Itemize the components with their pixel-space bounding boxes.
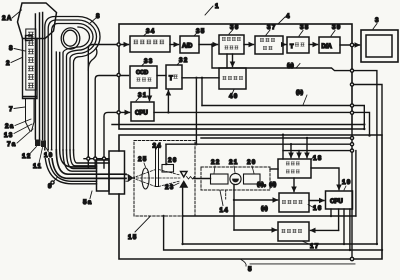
box4 edge extension [351, 129, 353, 259]
svg-text:40: 40 [229, 93, 239, 100]
wire to pre-process [88, 45, 128, 169]
svg-text:21: 21 [229, 159, 239, 166]
box 32 TG [166, 65, 182, 89]
wire 16 to CPU19 [309, 200, 324, 202]
label 2a [5, 119, 31, 130]
label 13 [4, 124, 32, 139]
wire 33-32 [157, 75, 166, 77]
dashed lamp housing 15 [134, 141, 195, 217]
CPU19 riser A [330, 209, 332, 216]
node TG branch [201, 77, 203, 79]
wire right into 17 [311, 229, 339, 231]
light rays [133, 170, 181, 187]
label 38 [299, 24, 310, 36]
monitor 3 outer [361, 30, 398, 62]
wire y150.6 to y216 riser [355, 151, 357, 216]
svg-text:5a: 5a [83, 199, 93, 206]
box 36 video signal processor [219, 35, 244, 54]
box 19 CPU [326, 191, 353, 209]
wire 38-39 [309, 44, 318, 46]
wire 18 down to 16 [293, 178, 295, 192]
label 19 [342, 179, 352, 190]
label 2A [2, 10, 22, 22]
scope body sides [23, 39, 38, 99]
box 22 [211, 174, 229, 184]
wire 14 to 18 [270, 168, 278, 170]
enclosure 5 [119, 135, 382, 259]
label 21 [229, 159, 239, 173]
label 16 [308, 205, 323, 213]
bus y250 [164, 216, 382, 250]
box 17 photometric circuit [278, 222, 309, 241]
label 24 [153, 143, 163, 150]
svg-text:2: 2 [6, 60, 11, 67]
label 5a [83, 191, 93, 206]
label 15 [128, 217, 150, 242]
wire left into 17 [234, 229, 277, 231]
svg-text:D/A: D/A [322, 44, 333, 50]
label 11 [32, 148, 44, 171]
svg-text:2A: 2A [2, 15, 13, 22]
descending cable bundle with bend [35, 13, 126, 184]
wire 26 riser [165, 144, 167, 164]
wire (b) bus [202, 106, 364, 130]
label 34 [144, 28, 156, 36]
wire CPU31 right to TG riser [154, 111, 168, 113]
CPU19 riser B [338, 209, 340, 230]
svg-text:23: 23 [165, 184, 175, 191]
svg-text:7: 7 [9, 106, 14, 113]
wire 32-40 [182, 77, 219, 79]
bus y144.2 [166, 143, 352, 145]
node on (a) branch [211, 43, 213, 45]
label 14 [220, 191, 230, 215]
svg-text:T: T [290, 44, 294, 50]
processor enclosure 4 [119, 24, 352, 129]
svg-text:22: 22 [211, 159, 221, 166]
svg-text:15: 15 [128, 234, 138, 241]
label 3 [373, 17, 380, 29]
svg-text:20: 20 [247, 159, 257, 166]
dashes below 22 [225, 190, 227, 199]
wire to CPU31 [104, 112, 130, 168]
box 18 diaphragm controller [278, 159, 311, 178]
bus y124.5 [112, 124, 364, 126]
bus y138 [201, 137, 352, 139]
box 35 A/D [180, 36, 199, 53]
wire motor to 16 with (a) [234, 185, 278, 230]
label 23 [165, 183, 179, 191]
bus y244 [183, 243, 377, 245]
wire into connector [84, 158, 109, 160]
junction [167, 111, 169, 113]
svg-text:25: 25 [138, 156, 148, 163]
riser TG wire to bus [195, 78, 197, 144]
svg-text:5: 5 [248, 266, 253, 273]
svg-text:31: 31 [138, 92, 148, 99]
svg-text:26: 26 [168, 157, 178, 164]
wire 36 down to 40 [226, 54, 228, 68]
svg-text:8: 8 [9, 45, 14, 52]
svg-text:14: 14 [220, 207, 230, 214]
wire 33 down to CPU31 [149, 88, 151, 101]
box 39 D/A [319, 37, 340, 53]
box 34 pre-process circuit [130, 36, 170, 52]
svg-text:8: 8 [96, 13, 101, 20]
svg-text:24: 24 [153, 143, 163, 150]
wire to CCD driver [95, 76, 128, 169]
svg-text:38: 38 [300, 24, 310, 31]
label 18 [311, 155, 323, 162]
svg-text:3: 3 [375, 17, 380, 24]
wire 34-35 [170, 44, 179, 46]
label 36 [229, 24, 240, 34]
svg-text:16: 16 [313, 205, 323, 212]
label 8 left [9, 45, 25, 52]
svg-text:39: 39 [332, 24, 342, 31]
box 31 CPU [131, 102, 154, 121]
second bottom line [250, 263, 355, 265]
svg-text:2a: 2a [5, 123, 15, 130]
wire 18 right to CPU19 top [311, 168, 339, 190]
insertion tube 7a [26, 99, 35, 132]
svg-text:13: 13 [4, 132, 14, 139]
node (b) corner [363, 128, 365, 130]
label 4 [278, 13, 291, 24]
wire (a) video branch [212, 45, 377, 245]
label 17 [303, 242, 320, 251]
svg-text:A/D: A/D [182, 44, 193, 50]
label 1 [205, 3, 220, 15]
label 7 [9, 106, 25, 113]
box 33 CCD driver [130, 66, 157, 88]
chopper motor 21 [230, 173, 241, 184]
svg-text:36: 36 [230, 24, 240, 31]
aperture motor 26 [162, 165, 174, 173]
wire 37-38 [283, 44, 286, 46]
label 37 [266, 24, 277, 35]
box 40 light-control circuit [219, 68, 246, 89]
label 33 [142, 58, 154, 66]
wire TG branch riser [201, 78, 203, 106]
label 25 [138, 156, 148, 167]
svg-text:37: 37 [267, 24, 277, 31]
label 7a [7, 129, 33, 148]
svg-text:34: 34 [146, 28, 156, 35]
svg-text:(c)，(d): (c)，(d) [257, 182, 276, 188]
label 32 [177, 57, 189, 65]
label 40 [229, 90, 239, 101]
box 38 gamma correction [287, 37, 309, 53]
label 31 [136, 92, 148, 101]
cable loop 8 (P-shaped coiled cord) [45, 17, 100, 151]
svg-text:11: 11 [33, 163, 42, 170]
label 9 [48, 178, 57, 191]
svg-text:1: 1 [215, 3, 220, 10]
aperture plate 24 [156, 148, 159, 187]
svg-text:(a): (a) [287, 63, 294, 69]
handle inner square [26, 36, 33, 41]
label 10 [43, 147, 55, 159]
cpu31 long wire y112.4 [168, 112, 369, 135]
svg-text:10: 10 [44, 152, 54, 159]
svg-text:(b): (b) [296, 90, 303, 96]
lamp riser [182, 187, 184, 244]
feeders into box18 [282, 135, 284, 159]
label 5 [241, 260, 253, 274]
CPU19 riser C [343, 209, 345, 244]
monitor 3 screen [366, 35, 392, 57]
wire TG down [167, 91, 169, 113]
dashed chopper unit 14 [201, 167, 270, 190]
svg-text:CPU: CPU [135, 111, 148, 117]
wire 39-monitor [340, 44, 360, 46]
lamp 23 [181, 172, 188, 178]
box 20 [244, 174, 261, 184]
box 16 lamp controller [279, 193, 309, 212]
bus y150.6 [283, 150, 352, 152]
label 39 [331, 24, 342, 36]
name strip on body [26, 29, 36, 90]
svg-text:(a): (a) [261, 206, 268, 212]
wire lamp to 22 [194, 178, 211, 180]
connector block 5a [97, 160, 110, 191]
CPU19 riser D [349, 209, 351, 250]
svg-text:7a: 7a [7, 141, 17, 148]
light guide tip [126, 175, 133, 181]
svg-text:12: 12 [22, 153, 32, 160]
wire 36-37 [244, 44, 254, 46]
node circles on risers [94, 157, 97, 160]
wire 35-36 [199, 44, 218, 46]
handle / operation part 2A [18, 3, 57, 39]
feeder into 18 [298, 151, 300, 158]
svg-text:19: 19 [342, 179, 352, 186]
node on box4 edge [350, 43, 353, 46]
wire 36 down to 40 arrow [232, 54, 234, 67]
label 8 at loop [89, 13, 101, 24]
label 26 [165, 157, 178, 165]
label 22 [211, 159, 221, 174]
label 20 [247, 159, 257, 174]
label 35 [194, 28, 206, 36]
box 37 synchronizer circuit [255, 36, 283, 54]
svg-text:4: 4 [286, 13, 291, 20]
svg-text:18: 18 [313, 155, 323, 162]
svg-text:CPU: CPU [330, 199, 343, 205]
label 12 [21, 147, 37, 161]
feeder into 18 [306, 138, 308, 158]
svg-text:T: T [169, 76, 173, 82]
label 2 [6, 58, 22, 68]
bus y216 [183, 215, 356, 217]
svg-text:CCD: CCD [136, 70, 148, 76]
condenser lens 25 [142, 168, 149, 189]
distal end parts 12 11 10 [35, 140, 41, 147]
